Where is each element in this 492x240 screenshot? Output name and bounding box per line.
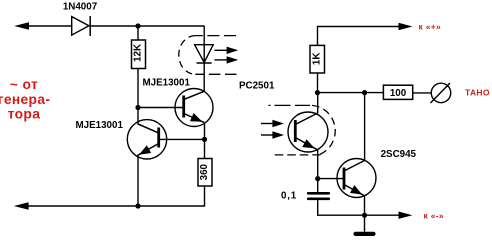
svg-text:тора: тора [8, 107, 41, 122]
resistor R2 360 [198, 159, 212, 187]
node junction ground [362, 213, 367, 218]
arrowhead right (to plus) [399, 23, 413, 30]
optocoupler phototransistor envelope (dashed) [269, 105, 336, 154]
wire emitter lower to bottom rail [137, 155, 139, 207]
ground [356, 232, 374, 236]
node junction top-left [135, 23, 140, 28]
svg-text:к «+»: к «+» [419, 22, 442, 32]
wire cap bottom lead + bottom rail [318, 200, 399, 215]
wire base upper transistor [138, 107, 183, 109]
LED light arrow 1 [215, 47, 239, 54]
node junction 1K/collector rail [315, 90, 320, 95]
resistor R1 12K [132, 40, 146, 69]
wire top-left rail [27, 25, 72, 27]
wire diode-to-corner [90, 25, 205, 27]
wire ground lead [364, 215, 366, 231]
photo light arrow 1 [261, 120, 284, 127]
wire 12K bottom lead [137, 69, 139, 108]
svg-text:0,1: 0,1 [281, 191, 297, 202]
svg-text:генера-: генера- [0, 92, 50, 107]
wire 2SC945 collector up [364, 93, 366, 161]
wire 360 bottom to rail corner [138, 186, 205, 206]
svg-text:MJE13001: MJE13001 [76, 120, 124, 131]
wire LED vertical (anode/cathode) [203, 26, 205, 91]
svg-text:100: 100 [390, 88, 407, 99]
resistor R3 1K [310, 45, 325, 73]
LED of optocoupler PC2501 [195, 45, 214, 63]
wire 2SC945 emitter down [364, 196, 366, 216]
svg-text:ТАНО: ТАНО [465, 88, 490, 98]
transistor Q1 MJE13001 (upper) [175, 89, 213, 127]
photo light arrow 2 [261, 131, 284, 138]
node junction collector tee [362, 90, 367, 95]
transistor Q2 MJE13001 (lower, mirrored) [127, 120, 166, 159]
wire 1K bottom [317, 73, 319, 93]
resistor R4 100 [383, 85, 412, 99]
svg-text:~ от: ~ от [10, 77, 38, 92]
LED light arrow 2 [215, 56, 239, 63]
svg-text:к «-»: к «-» [424, 210, 444, 220]
wire 12K top lead [137, 26, 139, 40]
wire photo collector up [317, 93, 319, 113]
svg-text:1N4007: 1N4007 [63, 2, 98, 13]
diode D1 1N4007 [72, 16, 91, 36]
node junction base tee upper [135, 105, 140, 110]
wire 100 to terminal [413, 92, 432, 94]
wire photo emitter down [317, 150, 319, 179]
svg-text:1K: 1K [311, 53, 322, 66]
wire upper emitter to junction [204, 123, 206, 139]
svg-text:2SC945: 2SC945 [381, 149, 417, 160]
capacitor C1 0,1 [308, 193, 329, 199]
arrowhead left (to generator, top) [14, 22, 29, 30]
terminal TAHO (circle with slash) [431, 83, 451, 103]
wire collector lower from junction [137, 108, 139, 125]
wire bottom-left rail [27, 205, 138, 207]
svg-text:PC2501: PC2501 [239, 81, 275, 92]
wire base 2SC945 [318, 178, 344, 180]
wire base lower transistor [159, 138, 205, 140]
wire top-right to plus [318, 27, 400, 46]
svg-text:360: 360 [199, 163, 210, 180]
arrowhead right (to minus) [399, 212, 413, 219]
wire mid rail to 100 [318, 92, 384, 94]
node junction emitter/base/360 [202, 137, 207, 142]
arrowhead left (to generator, bottom) [14, 202, 29, 210]
node junction bottom-left rail [135, 203, 140, 208]
node junction emitter/cap/base [315, 176, 320, 181]
transistor Q3 2SC945 [337, 159, 376, 198]
wire cap top lead [317, 179, 319, 192]
wire junction to 360 top [204, 139, 206, 158]
svg-text:12K: 12K [132, 44, 143, 62]
phototransistor of PC2501 [288, 112, 328, 152]
optocoupler LED envelope (dashed) [179, 36, 237, 75]
svg-text:MJE13001: MJE13001 [143, 78, 191, 89]
